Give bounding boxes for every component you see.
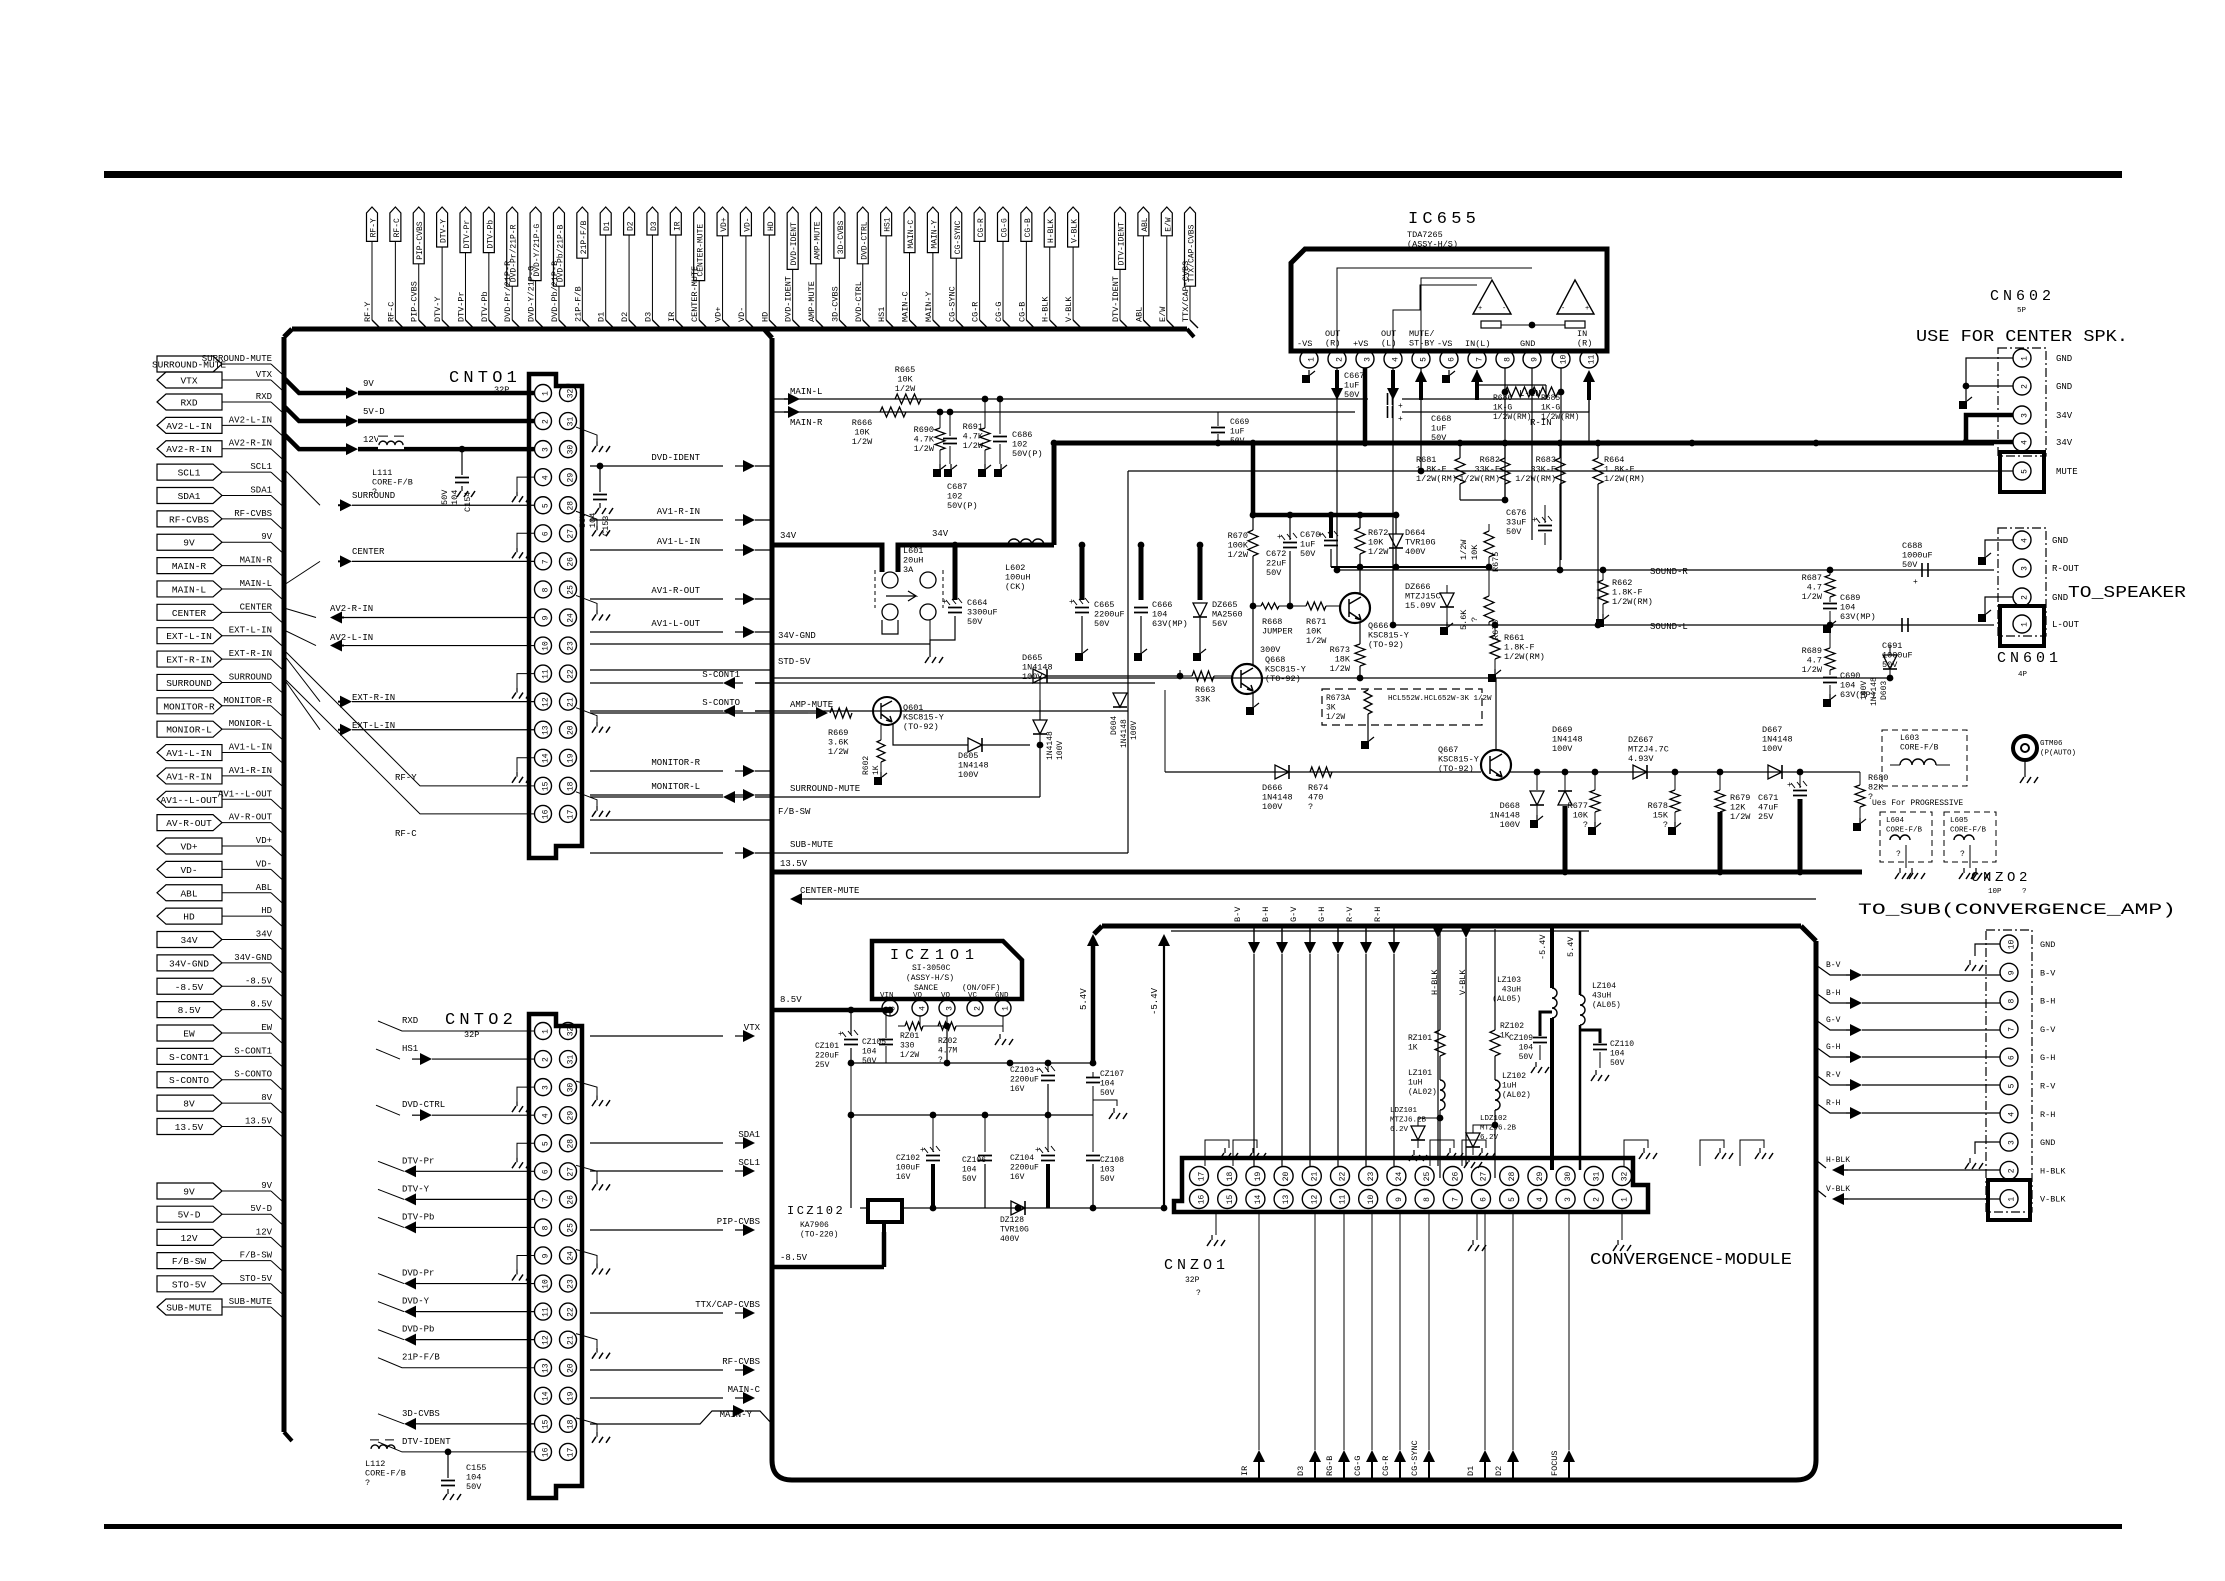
IC655 pin 5 label — [1409, 329, 1435, 349]
CNZ01 pin 5 — [1500, 1190, 1519, 1209]
svg-text:LZ101: LZ101 — [1408, 1069, 1432, 1078]
left tag 34V — [157, 930, 283, 951]
wire ICZ102 out rail — [902, 1205, 1167, 1212]
svg-text:AV1--L-OUT: AV1--L-OUT — [160, 795, 217, 806]
left board outline bus — [284, 329, 1194, 1441]
svg-text:MAIN-L: MAIN-L — [240, 579, 272, 589]
CNT02 pin 26 — [560, 1191, 577, 1208]
CNT01 pin 10 — [535, 637, 552, 654]
left tag AV1-L-IN — [157, 743, 283, 764]
svg-text:R675: R675 — [1491, 552, 1501, 572]
capacitor C155 — [441, 1449, 486, 1501]
wire bias bottom — [1331, 564, 1492, 571]
svg-text:100uH: 100uH — [1005, 573, 1031, 583]
capacitor CZ108 — [1086, 1115, 1124, 1208]
wire DVD-Pb to CNT02 pin 12 — [378, 1325, 535, 1346]
left tag AV2-R-IN — [157, 439, 283, 460]
svg-text:AV1-R-IN: AV1-R-IN — [229, 766, 272, 776]
capacitor C665 — [1069, 542, 1125, 661]
CNZ01 pin 32 — [1613, 1167, 1632, 1186]
svg-text:?: ? — [1470, 617, 1480, 622]
svg-text:R671: R671 — [1306, 617, 1326, 627]
svg-text:104: 104 — [962, 1166, 977, 1175]
svg-text:DTV-IDENT: DTV-IDENT — [1111, 276, 1121, 322]
svg-text:-: - — [1502, 305, 1506, 313]
svg-text:100V: 100V — [1262, 802, 1283, 812]
ground bracket above CNZ01 — [1462, 1140, 1495, 1166]
wire AV2-R-IN to CNT01 pin9 — [284, 604, 535, 623]
capacitor C664 — [925, 542, 998, 663]
svg-text:V-BLK: V-BLK — [1826, 1185, 1850, 1194]
inductor L605 — [1944, 812, 1996, 879]
svg-text:R673: R673 — [1330, 645, 1350, 655]
svg-text:VD+: VD+ — [714, 307, 724, 322]
svg-text:22: 22 — [567, 669, 576, 679]
CNT02 pin 2 — [535, 1051, 552, 1068]
svg-text:104: 104 — [450, 490, 460, 505]
svg-text:B-H: B-H — [1826, 989, 1841, 998]
svg-text:DVD-CTRL: DVD-CTRL — [854, 281, 864, 322]
svg-text:DTV-Y: DTV-Y — [433, 296, 443, 322]
svg-text:11: 11 — [542, 669, 551, 679]
svg-text:10K: 10K — [1573, 811, 1589, 821]
zener LDZ101 — [1390, 1107, 1440, 1161]
svg-text:C155: C155 — [466, 1463, 486, 1473]
svg-text:?: ? — [2022, 888, 2027, 896]
svg-text:C666: C666 — [1152, 600, 1172, 610]
svg-text:CG-G: CG-G — [994, 302, 1004, 322]
svg-text:+: + — [942, 598, 947, 607]
svg-text:8.5V: 8.5V — [178, 1005, 201, 1016]
left tag VTX — [157, 370, 283, 391]
svg-text:27: 27 — [567, 529, 576, 539]
svg-text:R673A: R673A — [1326, 694, 1350, 703]
svg-text:1/2W(RM): 1/2W(RM) — [1504, 652, 1545, 662]
svg-text:B-V: B-V — [1826, 961, 1841, 970]
svg-text:KSC815-Y: KSC815-Y — [1438, 755, 1479, 765]
svg-text:13.5V: 13.5V — [175, 1122, 204, 1133]
svg-text:63V(MP): 63V(MP) — [1840, 612, 1876, 622]
wire 34V rail segment — [935, 539, 1054, 592]
IC655 pin 6 — [1440, 350, 1458, 368]
resistor R662 — [1596, 570, 1653, 627]
svg-text:H-BLK: H-BLK — [1047, 219, 1056, 243]
ground at CNT02 right column — [576, 1165, 610, 1190]
svg-text:GND: GND — [995, 992, 1009, 1000]
top pin tag CENTER-MUTE — [690, 207, 707, 328]
svg-text:EXT-L-IN: EXT-L-IN — [166, 631, 212, 642]
svg-text:RF-CVBS: RF-CVBS — [169, 514, 209, 525]
ground bracket above CNZ01 — [1700, 1140, 1733, 1166]
CNT02 pin 13 — [535, 1359, 552, 1376]
svg-text:10K: 10K — [854, 428, 870, 438]
svg-text:1/2W: 1/2W — [828, 747, 849, 757]
svg-text:F/B-SW: F/B-SW — [240, 1251, 273, 1261]
svg-text:1/2W: 1/2W — [1326, 713, 1345, 722]
svg-text:1.8K-F: 1.8K-F — [1612, 588, 1643, 598]
svg-text:50V: 50V — [1506, 527, 1522, 537]
svg-text:D604: D604 — [1110, 716, 1119, 735]
top pin tag CG-B — [1017, 207, 1034, 328]
svg-text:300V: 300V — [1260, 645, 1281, 655]
wire S-CONT1 from CNT01 to right block — [590, 670, 772, 689]
top pin tag DVD-Pb/21P-B — [550, 207, 567, 328]
svg-text:2: 2 — [1336, 357, 1345, 362]
left tag MAIN-L — [157, 579, 283, 600]
svg-text:USE FOR CENTER SPK.: USE FOR CENTER SPK. — [1916, 328, 2128, 347]
svg-text:-8.5V: -8.5V — [175, 982, 204, 993]
svg-text:50V: 50V — [962, 1175, 977, 1184]
capacitor C687 label — [947, 482, 978, 511]
svg-text:AV-R-OUT: AV-R-OUT — [166, 818, 212, 829]
svg-text:RXD: RXD — [180, 398, 197, 409]
svg-text:3: 3 — [1564, 1197, 1573, 1202]
svg-text:4: 4 — [1536, 1197, 1545, 1202]
ground at CNT02 right column — [576, 1418, 610, 1443]
svg-text:CENTER: CENTER — [172, 608, 207, 619]
CNT02 pin 20 — [560, 1359, 577, 1376]
svg-text:PIP-CVBS: PIP-CVBS — [717, 1217, 760, 1227]
svg-text:21P-F/B: 21P-F/B — [573, 286, 583, 322]
svg-text:8: 8 — [1504, 357, 1513, 362]
svg-text:5V-D: 5V-D — [363, 407, 385, 417]
svg-text:L602: L602 — [1005, 563, 1025, 573]
svg-text:6: 6 — [1480, 1197, 1489, 1202]
svg-text:3: 3 — [542, 1085, 551, 1090]
svg-text:OUT: OUT — [1325, 329, 1340, 339]
wire pin8 down — [1504, 392, 1506, 500]
wire 21P-F/B to CNT02 pin 13 — [378, 1353, 535, 1368]
svg-text:Ues For PROGRESSIVE: Ues For PROGRESSIVE — [1872, 799, 1963, 808]
wire CENTER to CNT01 pin7 — [284, 547, 535, 585]
wire SURROUND-MUTE extension — [772, 742, 1043, 797]
CNZ02 pin 5 — [2000, 1077, 2056, 1095]
svg-text:10: 10 — [542, 641, 551, 651]
CN602 gnd wiring — [1959, 358, 2013, 409]
top pin tag VD+ — [714, 207, 731, 328]
svg-text:D3: D3 — [643, 312, 653, 322]
svg-text:ABL: ABL — [180, 888, 197, 899]
svg-text:5: 5 — [1508, 1197, 1517, 1202]
svg-text:330: 330 — [900, 1042, 915, 1051]
svg-text:400V: 400V — [1000, 1235, 1019, 1244]
IC655 pin 9 label — [1520, 339, 1535, 349]
svg-text:14: 14 — [542, 1391, 551, 1401]
inductor L112 — [365, 1440, 406, 1488]
CNZ01 pin 18 — [1218, 1167, 1237, 1186]
wire 8.5V into ICZ101 — [772, 1007, 893, 1035]
svg-text:104: 104 — [1840, 603, 1855, 613]
resistor R664 — [1593, 440, 1645, 625]
svg-text:L604: L604 — [1886, 817, 1905, 825]
CNT02 pin 15 — [535, 1415, 552, 1432]
svg-text:R674: R674 — [1308, 783, 1328, 793]
bus stub — [283, 1174, 285, 1176]
IC655 pin 8 — [1496, 350, 1514, 368]
svg-text:MTZJ6.2B: MTZJ6.2B — [1480, 1125, 1517, 1133]
CNT02 pin 25 — [560, 1219, 577, 1236]
svg-text:HD: HD — [261, 906, 272, 916]
ground at CNT01 right column — [576, 595, 610, 620]
CNZ01 pin 7 — [1443, 1190, 1462, 1209]
wire AV1-L-OUT from CNT01 to right block — [590, 619, 772, 638]
svg-text:TVR10G: TVR10G — [1000, 1226, 1029, 1235]
svg-text:R690: R690 — [914, 425, 934, 435]
svg-text:R668: R668 — [1262, 617, 1282, 627]
CNT02 pin 23 — [560, 1275, 577, 1292]
wire SUB-MUTE from CNT01 to right block — [590, 840, 833, 859]
svg-text:C672: C672 — [1266, 549, 1286, 559]
svg-text:9: 9 — [542, 615, 551, 620]
CNZ01 pin 24 — [1387, 1167, 1406, 1186]
wire 12V to CNT01 pin3 — [284, 434, 535, 455]
resistor R666 — [852, 407, 906, 447]
svg-text:102: 102 — [947, 492, 962, 502]
svg-text:VD-: VD- — [737, 307, 747, 322]
wire AV2-L-IN to CNT01 pin10 — [284, 630, 535, 652]
svg-text:R-H: R-H — [1373, 907, 1383, 922]
wire G-V to CNZ02 — [1816, 1016, 2000, 1036]
svg-text:104: 104 — [1152, 610, 1167, 620]
svg-text:1/2W(RM): 1/2W(RM) — [1604, 474, 1645, 484]
left tag AV2-L-IN — [157, 415, 283, 436]
svg-text:1/2W(RM): 1/2W(RM) — [1612, 597, 1653, 607]
top pin tag 3D-CVBS — [830, 207, 847, 328]
CNT02 pin 10 — [535, 1275, 552, 1292]
svg-text:R678: R678 — [1648, 801, 1668, 811]
wire S-CONTO extension — [755, 710, 1128, 712]
svg-text:S-CONTO: S-CONTO — [234, 1070, 272, 1080]
svg-text:?: ? — [1960, 850, 1965, 859]
wire MONITOR-L from CNT01 to right block — [590, 782, 772, 801]
resistor RZ101 — [1408, 926, 1445, 1080]
left tag 8V — [157, 1093, 283, 1114]
power arrow -5.4V — [1150, 931, 1589, 1208]
top pin tag DVD-IDENT — [784, 207, 801, 328]
svg-text:+: + — [1787, 781, 1792, 790]
CNT01 pin 17 — [560, 805, 577, 822]
CNT02 pin 1 — [535, 1023, 552, 1040]
svg-text:10: 10 — [1560, 355, 1569, 365]
CNZ01 pin 2 — [1584, 1190, 1603, 1209]
bus stub — [283, 1259, 285, 1261]
wire -8.5V feed — [772, 1232, 884, 1267]
svg-text:MUTE: MUTE — [2056, 467, 2078, 477]
svg-text:3: 3 — [2021, 413, 2030, 418]
svg-text:R677: R677 — [1568, 801, 1588, 811]
label TO_SUB(CONVERGENCE_AMP) — [1858, 901, 2176, 919]
CNT01 pin 25 — [560, 581, 577, 598]
svg-text:IR: IR — [1240, 1466, 1250, 1476]
top pin tag HS1 — [877, 207, 894, 328]
svg-text:CNZO2: CNZO2 — [1971, 870, 2031, 886]
inductor L111 — [372, 436, 413, 497]
diode D669 label — [1552, 725, 1583, 754]
svg-text:?: ? — [1308, 802, 1313, 812]
CNT02 pin 17 — [560, 1443, 577, 1460]
CNZ02 pin 6 — [2000, 1048, 2055, 1066]
resistor R686 — [1493, 368, 1531, 422]
svg-text:34V: 34V — [780, 531, 797, 541]
CNT01 pin 1 — [535, 385, 552, 402]
wire TTX/CAP-CVBS from CNT02 — [590, 1300, 760, 1319]
svg-text:JUMPER: JUMPER — [1262, 627, 1293, 637]
svg-text:32: 32 — [567, 389, 576, 399]
svg-text:CENTER-MUTE: CENTER-MUTE — [690, 266, 700, 322]
svg-text:7: 7 — [542, 1197, 551, 1202]
svg-text:19: 19 — [567, 1391, 576, 1401]
CN601 pin 3 — [2013, 559, 2080, 577]
IC655 pin 1 — [1300, 350, 1318, 368]
top pin tag DTV-Pr — [456, 207, 473, 328]
svg-text:1uH: 1uH — [1408, 1079, 1423, 1088]
wire 34V rail to CN602 — [1054, 440, 1994, 447]
CNZ01 pin 27 — [1472, 1167, 1491, 1186]
svg-text:AV2-L-IN: AV2-L-IN — [166, 421, 212, 432]
regulator ICZ101 title-body — [872, 941, 1022, 1000]
svg-text:30: 30 — [567, 1083, 576, 1093]
svg-text:9V: 9V — [183, 538, 195, 549]
wire DVD-IDENT from CNT01 to right block — [590, 453, 772, 472]
wire 34V from tag — [772, 531, 856, 545]
IC655 pin 11 label — [1577, 329, 1592, 349]
CNZ01 pin 29 — [1528, 1167, 1547, 1186]
CNT02 pin 32 — [560, 1023, 577, 1040]
svg-text:2: 2 — [974, 1006, 983, 1011]
connector CN602 outline — [1998, 348, 2046, 456]
feed B-V into CNZ01 — [1233, 906, 1260, 1166]
svg-text:3300uF: 3300uF — [967, 608, 998, 618]
svg-text:5: 5 — [1420, 357, 1429, 362]
CNZ01 pin 13 — [1274, 1190, 1293, 1209]
regulator ICZ102 — [787, 1200, 902, 1240]
svg-text:AV2-R-IN: AV2-R-IN — [229, 439, 272, 449]
IC655 internal wiring — [1337, 268, 1532, 351]
svg-text:S-CONT1: S-CONT1 — [234, 1046, 272, 1056]
diode DZ128 — [1000, 1201, 1029, 1244]
ground bracket above CNZ01 — [1740, 1140, 1773, 1166]
feed H-BLK V-BLK verticals — [1432, 926, 1472, 1166]
svg-text:1K-G: 1K-G — [1493, 404, 1512, 413]
svg-text:-: - — [1561, 305, 1565, 313]
svg-text:DVD-Pr/21P-R: DVD-Pr/21P-R — [503, 261, 513, 322]
CNT01 pin 14 — [535, 749, 552, 766]
resistor RZ01 — [898, 1016, 950, 1060]
feed G-H into CNZ01 — [1317, 907, 1344, 1166]
svg-text:R-V: R-V — [1826, 1071, 1841, 1080]
svg-text:1K-G: 1K-G — [1541, 404, 1560, 413]
ground bracket above CNZ01 — [1233, 1140, 1266, 1166]
zener DZ666 — [1405, 582, 1454, 635]
CNT02 pin 21 — [560, 1331, 577, 1348]
svg-text:3D-CVBS: 3D-CVBS — [830, 286, 840, 322]
svg-text:SCL1: SCL1 — [178, 468, 201, 479]
svg-text:GTM06: GTM06 — [2040, 740, 2063, 748]
CNT02 pin 7 — [535, 1191, 552, 1208]
svg-text:8V: 8V — [183, 1099, 195, 1110]
svg-text:(AL02): (AL02) — [1408, 1088, 1437, 1097]
svg-text:FOCUS: FOCUS — [1550, 1450, 1560, 1476]
svg-text:AMP-MUTE: AMP-MUTE — [807, 281, 817, 322]
CNT02 pin 4 — [535, 1107, 552, 1124]
svg-text:CENTER: CENTER — [352, 547, 385, 557]
wire MAIN-R line — [772, 406, 1355, 428]
top pin tag MAIN-C — [901, 207, 918, 328]
svg-text:1/2W: 1/2W — [1330, 664, 1351, 674]
inductor LZ104 — [1566, 931, 1621, 1170]
CNT02 pin 24 — [560, 1247, 577, 1264]
svg-text:RF-Y: RF-Y — [363, 302, 373, 322]
inductor LZ101 — [1408, 1069, 1445, 1178]
svg-text:+: + — [1035, 1146, 1040, 1155]
svg-text:2: 2 — [542, 1057, 551, 1062]
svg-text:7: 7 — [2008, 1027, 2017, 1032]
svg-text:G-H: G-H — [2040, 1053, 2055, 1063]
svg-text:V-BLK: V-BLK — [2040, 1195, 2066, 1205]
CN602 pin 3 — [2013, 406, 2073, 424]
left tag SURROUND-MUTE — [152, 354, 283, 375]
capacitor CZ103 — [1010, 1063, 1055, 1115]
svg-text:GND: GND — [2056, 382, 2072, 392]
capacitor C153 — [578, 463, 613, 536]
svg-text:Q666: Q666 — [1368, 621, 1388, 631]
top border rule — [104, 171, 2122, 178]
svg-text:+: + — [1069, 598, 1074, 607]
svg-text:RF-Y: RF-Y — [395, 773, 417, 783]
CNZ01 pin 26 — [1443, 1167, 1462, 1186]
bus stub — [283, 1146, 285, 1148]
left tag 5V-D — [157, 1204, 283, 1225]
svg-text:1N4148: 1N4148 — [1262, 793, 1293, 803]
svg-text:(AL02): (AL02) — [1502, 1091, 1531, 1100]
svg-text:3D-CVBS: 3D-CVBS — [402, 1409, 440, 1419]
svg-text:1K: 1K — [1408, 1044, 1418, 1053]
svg-text:3D-CVBS: 3D-CVBS — [837, 220, 846, 254]
svg-text:R662: R662 — [1612, 578, 1632, 588]
svg-text:1N4148: 1N4148 — [1762, 735, 1793, 745]
svg-text:+: + — [1035, 1066, 1040, 1075]
svg-text:34V-GND: 34V-GND — [234, 953, 272, 963]
svg-text:4: 4 — [2008, 1112, 2017, 1117]
svg-text:TTX/CAP-CVBS: TTX/CAP-CVBS — [1181, 261, 1191, 322]
svg-text:MONITOR-R: MONITOR-R — [223, 696, 272, 706]
resistor R668 jumper — [1250, 603, 1294, 655]
svg-text:32: 32 — [567, 1027, 576, 1037]
svg-text:26: 26 — [567, 1195, 576, 1205]
svg-text:DVD-Pb/21P-B: DVD-Pb/21P-B — [550, 261, 560, 322]
svg-text:104: 104 — [588, 513, 598, 528]
CN602 34V pin4 wire — [1963, 439, 2013, 446]
svg-text:100V: 100V — [1130, 721, 1139, 740]
wire SOUND-L — [1393, 622, 1994, 632]
capacitor CZ106 — [962, 1115, 992, 1208]
svg-text:C686: C686 — [1012, 430, 1032, 440]
svg-text:4.7K: 4.7K — [914, 435, 935, 445]
svg-text:DVD-Pb: DVD-Pb — [402, 1325, 434, 1335]
svg-text:25: 25 — [1423, 1172, 1432, 1182]
svg-text:7: 7 — [542, 559, 551, 564]
ground at CNT01 left column — [512, 758, 535, 783]
svg-text:KA7906: KA7906 — [800, 1221, 829, 1230]
zener DZ665 — [1193, 542, 1243, 661]
svg-text:50V: 50V — [1902, 560, 1918, 570]
zener LDZ102 — [1464, 1115, 1517, 1168]
svg-text:CNZO1: CNZO1 — [1164, 1257, 1229, 1274]
svg-text:34V: 34V — [932, 529, 949, 539]
svg-text:6: 6 — [542, 1169, 551, 1174]
svg-text:AV2-R-IN: AV2-R-IN — [166, 444, 212, 455]
resistor R678 — [1648, 772, 1681, 835]
